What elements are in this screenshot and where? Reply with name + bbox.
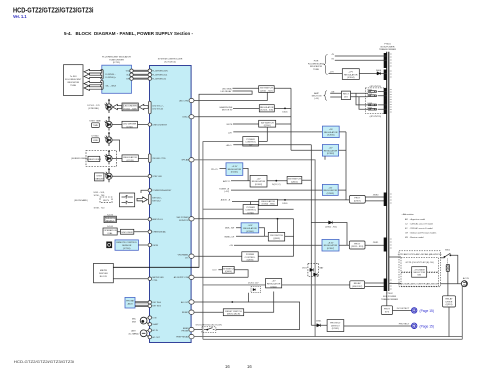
svg-text:HCD-GTZ2/GTZ2i/GTZ3/GTZ3i: HCD-GTZ2/GTZ2i/GTZ3/GTZ3i (14, 360, 74, 364)
wire spk ab long (194, 160, 315, 337)
svg-text:SW SWITCH: SW SWITCH (261, 122, 274, 124)
svg-text:GTZ3 (CH GTZ2i E2 (E) CH): GTZ3 (CH GTZ2i E2 (E) CH) (406, 262, 434, 264)
svg-text:PROT: PROT (354, 198, 361, 200)
wires 3.3v (220, 168, 249, 180)
wire led sw (233, 87, 292, 89)
svg-text:CONTROL: CONTROL (245, 257, 256, 259)
selector jumper knob (446, 265, 449, 272)
pin AC OUT (148, 335, 151, 338)
reset switch box (223, 309, 243, 316)
svg-text:REGULATOR: REGULATOR (324, 131, 338, 134)
svg-text:(IC905): (IC905) (327, 135, 335, 137)
pill pin SW LED (149, 154, 152, 163)
LED driver IC501-508 (122, 103, 138, 111)
svg-text:TIME: TIME (93, 125, 99, 127)
svg-text:REGULATOR: REGULATOR (123, 156, 137, 159)
pin AC IN (148, 329, 151, 332)
relay drive box (443, 296, 456, 307)
hollow arrow to tube (upper A) (84, 69, 102, 74)
wires relay to coil (365, 283, 384, 287)
svg-text:16: 16 (247, 364, 252, 369)
wire led relay elbow (199, 91, 252, 267)
svg-text:DY101 - 170: DY101 - 170 (87, 105, 100, 107)
svg-text:RM IN: RM IN (152, 245, 158, 247)
svg-text:SW8D+CH: SW8D+CH (224, 237, 234, 239)
wires switch to ac (440, 255, 461, 283)
transformer right ticks (390, 54, 392, 289)
svg-text:REMOTE CONTROL: REMOTE CONTROL (116, 242, 137, 244)
svg-text:DISPLAY: DISPLAY (99, 272, 109, 275)
svg-text:GTZ3 AR+MX/COUNTER (AR+MX/CH): GTZ3 AR+MX/COUNTER (AR+MX/CH) (400, 282, 439, 285)
prot sys box (381, 306, 392, 315)
svg-text:D901: D901 (282, 203, 288, 205)
bus x202.9 (202, 141, 204, 339)
pin METER LED (148, 277, 151, 280)
svg-text:(IC570): (IC570) (126, 160, 134, 162)
svg-text:FL-DRIVER-GL4: FL-DRIVER-GL4 (152, 75, 168, 77)
svg-text:RESET: RESET (182, 312, 189, 314)
power control sw box (243, 137, 259, 146)
svg-text:FLUORESCENT INDICATOR: FLUORESCENT INDICATOR (102, 56, 131, 59)
pin POWER KEY (148, 189, 151, 192)
primary coil blob 1 (384, 53, 387, 68)
svg-text:LINE: LINE (93, 140, 98, 142)
pins KEY IN (148, 301, 151, 304)
system controller IC701 (150, 66, 192, 343)
svg-text:(IC751): (IC751) (113, 62, 121, 64)
FL indicator tube driver IC751 (102, 65, 132, 93)
svg-text:KEY/D10 -: KEY/D10 - (152, 197, 162, 199)
svg-text:TUBE: TUBE (70, 85, 76, 87)
svg-text:RELAY: RELAY (354, 282, 362, 285)
brace fl (324, 55, 328, 75)
svg-text:DIO: DIO (344, 97, 348, 99)
svg-text:LED CTRL: LED CTRL (179, 100, 190, 102)
wire led ctrl (194, 92, 267, 100)
svg-text:FLUORESCENT: FLUORESCENT (308, 63, 325, 65)
svg-text:RESET SWITCH: RESET SWITCH (225, 311, 242, 313)
wire vhf (194, 219, 293, 256)
secondary coil blob 5 (384, 238, 387, 252)
-27V regulator IC604 (329, 72, 343, 74)
voltage selector dashed box 2 (401, 273, 439, 287)
+8.5V regulator IC907 (322, 239, 339, 251)
svg-text:FL-DRIVER-G5N: FL-DRIVER-G5N (152, 71, 168, 73)
svg-text:+5V: +5V (329, 148, 333, 150)
svg-text:SELECT: SELECT (106, 221, 115, 223)
svg-text:SYS: SYS (385, 311, 390, 313)
svg-text:PREP RELAY: PREP RELAY (176, 335, 189, 338)
wires FL driver to system controller (3 double lines) (133, 70, 148, 79)
wires q605 (218, 270, 248, 278)
wire led-driver (112, 124, 148, 126)
svg-text:POWER/SW-A1/KEY: POWER/SW-A1/KEY (152, 189, 172, 192)
svg-text:TIMER/SW: TIMER/SW (105, 218, 117, 220)
svg-text:(IC604): (IC604) (347, 77, 355, 79)
svg-text:+B8+5: +B8+5 (226, 145, 233, 147)
pin CSN (189, 115, 194, 119)
svg-text:(S921) (E2,E): (S921) (E2,E) (227, 314, 241, 316)
svg-text:PROTECT: PROTECT (330, 323, 341, 325)
svg-text:MUTE: MUTE (227, 124, 233, 126)
DY500 box (88, 156, 100, 161)
svg-text:LED SW A: LED SW A (222, 87, 232, 90)
+5V regulator IC903 (322, 184, 338, 195)
prot box 9V (349, 195, 365, 203)
svg-text:D951: D951 (316, 321, 322, 323)
hollow arrow to tube (lower B) (84, 86, 102, 91)
svg-text:NON-POWER: NON-POWER (381, 46, 395, 48)
FL driver left pill connectors (101, 70, 104, 80)
remote sensor icon (106, 242, 112, 249)
svg-text:SELECTOR: SELECTOR (413, 272, 425, 274)
wire relay drive down (448, 307, 450, 337)
svg-text:CTRL: CTRL (152, 280, 158, 282)
svg-text:MB789: MB789 (100, 270, 108, 272)
svg-text:(D907): (D907) (354, 201, 361, 203)
svg-text:OPERATION: OPERATION (104, 229, 117, 232)
svg-text:INDICATOR: INDICATOR (310, 65, 322, 68)
svg-text:S708 - 710: S708 - 710 (94, 208, 105, 210)
diode D902 row (311, 223, 347, 246)
svg-text:PROT: PROT (354, 243, 361, 245)
LED DY500 (105, 150, 113, 164)
brace amp (324, 91, 327, 100)
svg-text:AD SUPPLY SW: AD SUPPLY SW (174, 276, 189, 279)
svg-text:POWER: POWER (246, 139, 255, 141)
pin K IN (148, 316, 151, 319)
svg-text:MONITOR: MONITOR (179, 220, 189, 222)
wire protect out (344, 325, 412, 327)
svg-text:D(OC,C): D(OC,C) (272, 184, 281, 186)
dcdc dashed box (251, 287, 261, 293)
svg-text:REGULATOR: REGULATOR (252, 180, 266, 183)
bus x267 down (266, 127, 268, 141)
svg-text:5-4. BLOCK DIAGRAM - PANEL,: 5-4. BLOCK DIAGRAM - PANEL, POWER SUPPLY… (64, 31, 193, 36)
svg-text:SW SWITCH: SW SWITCH (270, 235, 283, 237)
svg-text:AKEY/D-UL: AKEY/D-UL (152, 218, 163, 221)
wire sensor (138, 244, 148, 246)
svg-text:REGULATOR: REGULATOR (260, 106, 274, 109)
svg-text:(IC907): (IC907) (327, 248, 335, 250)
svg-text:POWER: POWER (246, 254, 255, 256)
svg-text:CONTROL: CONTROL (245, 142, 256, 144)
bus x291 (290, 88, 292, 150)
svg-text:FLDRV4Qs: FLDRV4Qs (106, 77, 116, 79)
sw switch Q903 (268, 232, 284, 241)
svg-text:LDO: LDO (212, 270, 217, 272)
svg-text:To 903: To 903 (70, 76, 77, 78)
svg-text:Ver. 1.1: Ver. 1.1 (13, 14, 27, 19)
svg-text:AC IN: AC IN (463, 277, 469, 280)
wire display top crossing controller (113, 266, 199, 268)
wires regs to bus (325, 132, 346, 200)
svg-text:S-ANT: S-ANT (152, 323, 159, 326)
wire dy600 (112, 175, 148, 177)
wires ic906 (236, 228, 265, 237)
svg-text:16: 16 (225, 364, 230, 369)
svg-text:(+B): (+B) (314, 98, 318, 100)
power control Q905 (242, 252, 258, 261)
wire ic903 (338, 189, 346, 191)
headphone jack block (125, 297, 135, 308)
wire display meter (113, 278, 148, 280)
svg-text:PR+C5: PR+C5 (211, 169, 218, 171)
primary coil blob 2 (384, 70, 387, 81)
svg-text:REGULATOR: REGULATOR (228, 168, 242, 171)
svg-text:RELAY: RELAY (445, 298, 453, 301)
wires selector to transformer (389, 257, 401, 283)
svg-text:D601: D601 (282, 111, 288, 113)
svg-text:GTZ3 ABC/GTZ2i ABC+MX AR (AB+M: GTZ3 ABC/GTZ2i ABC+MX AR (AB+MX/CH) (398, 253, 442, 256)
svg-text:(S901 RY): (S901 RY) (352, 286, 362, 288)
wires sub (112, 157, 148, 159)
svg-text:JW91: JW91 (373, 242, 379, 244)
svg-text:PHONE: PHONE (181, 331, 189, 333)
AC plug (461, 281, 467, 287)
svg-text:(D902 - R2): (D902 - R2) (325, 226, 337, 228)
regulator IC904 (259, 199, 278, 205)
fluorescent indicator tube box (64, 65, 84, 96)
wire ac bus2 (203, 284, 462, 339)
pin AKEY (148, 218, 151, 221)
LED DY600 (105, 168, 113, 182)
wire to acc pin (141, 190, 148, 193)
battery diode dashed box (308, 263, 319, 276)
svg-text:MIX: MIX (132, 321, 136, 323)
junction D901 (284, 199, 286, 201)
svg-text:+5V: +5V (257, 178, 261, 180)
svg-text:DRIVE: DRIVE (446, 301, 453, 303)
svg-text:(IC501 - 508): (IC501 - 508) (124, 109, 137, 111)
svg-text:AU OUT: AU OUT (181, 301, 189, 304)
wire vfd up from display (198, 266, 200, 268)
svg-text:KEYS: KEYS (103, 200, 109, 202)
svg-text:(Page 15): (Page 15) (420, 309, 434, 313)
wire s106 (116, 218, 148, 220)
wires prot (339, 244, 387, 246)
transformer PT601 core bars (387, 52, 389, 291)
rect box (342, 91, 351, 100)
svg-text:(S-TMRA): (S-TMRA) (129, 332, 139, 335)
svg-text:EMER: EMER (183, 328, 189, 330)
svg-text:FOR: FOR (314, 61, 319, 63)
svg-text:REGULATOR: REGULATOR (344, 73, 358, 76)
arrow to LEDs (113, 104, 122, 109)
MB789 display block (94, 263, 114, 282)
svg-text:(Q605): (Q605) (225, 271, 232, 273)
svg-text:JW90: JW90 (373, 194, 379, 196)
svg-text:+VE: +VE (331, 91, 336, 93)
junction DOC (275, 180, 277, 182)
svg-text:(+5V): (+5V) (224, 191, 229, 193)
svg-text:ENCODER: ENCODER (122, 232, 133, 234)
svg-text:LED VOL 2 -: LED VOL 2 - (152, 105, 164, 107)
svg-text:SW SWITCH: SW SWITCH (222, 268, 235, 270)
prot box D911-913 (349, 241, 365, 249)
LED driver sub (122, 155, 138, 162)
svg-text:(STROBE): (STROBE) (88, 108, 99, 110)
svg-text:FLDRV34 -: FLDRV34 - (106, 74, 116, 76)
svg-text:ANT: ANT (131, 330, 136, 333)
FL driver right pins G5Q GL4 G7B (130, 69, 133, 72)
PT602 coil blob (384, 279, 387, 292)
wires q701 (203, 208, 243, 210)
pin STBY LED (148, 175, 151, 178)
svg-text:-27V: -27V (330, 72, 335, 74)
svg-text:LINE LED/STBY: LINE LED/STBY (152, 124, 167, 126)
svg-text:(IC903): (IC903) (327, 193, 335, 195)
wire emer phone (194, 329, 300, 331)
fuses dashed box (365, 88, 385, 114)
wires ant jack (146, 330, 149, 337)
junction D601 (284, 108, 286, 110)
svg-text:FLUORESCENT: FLUORESCENT (65, 79, 82, 81)
node +CD/+CH (203, 284, 350, 286)
pin VFD PANEL (189, 254, 194, 258)
junction vhf (277, 218, 279, 220)
relay S901RY (350, 281, 365, 289)
svg-text:SW SWITCH: SW SWITCH (288, 179, 301, 181)
pin LINE LED (148, 123, 151, 126)
arrow keys to controller (137, 197, 147, 202)
svg-text:-27V: -27V (348, 72, 353, 74)
svg-text:HEADPHONE: HEADPHONE (220, 106, 233, 109)
wires prot to coil (365, 197, 386, 201)
svg-text:TUNER +B: TUNER +B (219, 188, 230, 190)
svg-text:E2 : 220V AC area in E model: E2 : 220V AC area in E model (405, 227, 433, 230)
wire au out (194, 293, 248, 302)
svg-text:G5Q: G5Q (126, 71, 131, 73)
wire csn (194, 116, 291, 118)
pill pin LED VOL (149, 101, 152, 114)
svg-text:(IC906): (IC906) (246, 231, 254, 233)
wire ic904 to prot (278, 199, 350, 201)
controller FL pins (148, 69, 151, 72)
svg-text:REGULATOR: REGULATOR (324, 189, 338, 192)
wire dy300 elbow (112, 140, 120, 152)
svg-text:SPK AB: SPK AB (181, 159, 189, 162)
key switch box (120, 193, 135, 207)
svg-text:(Q903): (Q903) (273, 238, 280, 240)
pin AD SUPPLY (189, 275, 194, 279)
svg-text:-UH: -UH (228, 133, 232, 135)
wires s100 (117, 231, 148, 233)
svg-text:(IC740): (IC740) (123, 248, 131, 250)
wire q903 out (285, 235, 294, 237)
svg-text:GTZ3 (GF/GTZ2i (E2, E) CH): GTZ3 (GF/GTZ2i (E2, E) CH) (196, 325, 222, 327)
svg-text:DY300: DY300 (92, 136, 99, 138)
wire ad supply (194, 276, 248, 278)
secondary coil blob 4 (384, 193, 387, 207)
sw switch Q501-502 (259, 86, 275, 93)
svg-text:FL-DRIVER-G2: FL-DRIVER-G2 (152, 78, 167, 80)
voltage selector outer dashed box (399, 251, 440, 287)
svg-text:SW LED CTRL: SW LED CTRL (152, 158, 166, 160)
svg-text:REGULATOR: REGULATOR (243, 227, 257, 230)
svg-text:(IC951): (IC951) (332, 328, 340, 330)
svg-text:SW SWITCH: SW SWITCH (260, 88, 273, 90)
svg-text:(D701): (D701) (126, 126, 133, 128)
svg-text:(IC701/IC6): (IC701/IC6) (164, 61, 176, 63)
svg-text:STBY TIME: STBY TIME (89, 121, 101, 123)
svg-text:(KEYBOARD): (KEYBOARD) (74, 199, 88, 202)
keys dashed box (100, 197, 112, 203)
svg-text:LED DRIVER: LED DRIVER (123, 123, 137, 125)
svg-text:PT601: PT601 (384, 44, 391, 46)
+9V regulator IC901 (322, 126, 339, 138)
svg-text:(Q905): (Q905) (247, 260, 254, 262)
svg-text:REGULATOR: REGULATOR (267, 283, 281, 286)
pin DIAL (148, 230, 151, 233)
pin AU OUT (189, 300, 194, 304)
svg-text:(Page 15): (Page 15) (420, 324, 434, 328)
selector dashed link (447, 259, 449, 265)
svg-text:TRANSFORMER: TRANSFORMER (379, 48, 396, 51)
wires reset (194, 292, 274, 313)
svg-text:(IC904 - 905): (IC904 - 905) (262, 204, 275, 206)
sw switch Q510 (259, 120, 276, 127)
wire emer up (248, 302, 299, 330)
bus x311 (310, 145, 312, 325)
voltage selector sw box (412, 267, 427, 278)
svg-text:DETECT: DETECT (331, 325, 340, 327)
voltage selector dashed box 1 (401, 258, 439, 272)
DY600 stby label box (95, 173, 104, 181)
svg-text:+CH: +CH (229, 245, 234, 247)
+5V regulator Q611 (266, 279, 282, 288)
amp out wires (351, 92, 387, 110)
page connector protect (412, 323, 417, 328)
power control Q701 (243, 205, 258, 214)
svg-text:- Abbreviation: - Abbreviation (402, 213, 414, 216)
pin EMER PHONE (189, 327, 194, 331)
svg-text:G8+ - G8v8: G8+ - G8v8 (106, 86, 117, 88)
svg-text:PROT: PROT (384, 309, 391, 311)
svg-text:KEY/D12: KEY/D12 (152, 200, 161, 202)
svg-text:SUBWOOFER: SUBWOOFER (87, 159, 102, 161)
svg-text:+3.3V: +3.3V (232, 166, 238, 168)
svg-text:(4PC/NT/D): (4PC/NT/D) (370, 86, 382, 88)
svg-text:MX : Mexican model: MX : Mexican model (405, 237, 424, 239)
svg-text:S101 - 105,: S101 - 105, (93, 192, 105, 194)
svg-text:STBY: STBY (96, 175, 102, 177)
svg-text:VHF POWER: VHF POWER (176, 217, 189, 219)
wires phone jack double (135, 302, 148, 307)
svg-text:CSN+4: CSN+4 (182, 117, 189, 119)
svg-text:(Q951): (Q951) (446, 304, 453, 306)
svg-text:AVR TO: AVR TO (223, 180, 231, 183)
pin SPK AB (189, 158, 194, 162)
emer dashed switch (202, 327, 216, 333)
svg-text:BLOCK: BLOCK (100, 276, 108, 278)
svg-text:+9V: +9V (329, 129, 333, 131)
svg-text:KEY IN A: KEY IN A (152, 301, 161, 304)
svg-text:MIC: MIC (132, 319, 136, 321)
wire q601 out (302, 179, 312, 181)
svg-text:AUDIO +B: AUDIO +B (221, 198, 231, 201)
protect detect IC951 (327, 320, 344, 332)
svg-text:(IC601): (IC601) (231, 172, 239, 174)
svg-text:(Q601): (Q601) (291, 181, 298, 183)
pin LED CTRL (189, 98, 194, 102)
wire dashed to s901 (440, 257, 444, 259)
svg-text:VFD/PANEL: VFD/PANEL (178, 254, 190, 257)
wire prep relay bus (194, 336, 462, 338)
+5V regulator IC602 (250, 175, 267, 187)
svg-text:REGULATOR: REGULATOR (324, 149, 338, 152)
svg-text:AC IN: AC IN (152, 329, 158, 332)
